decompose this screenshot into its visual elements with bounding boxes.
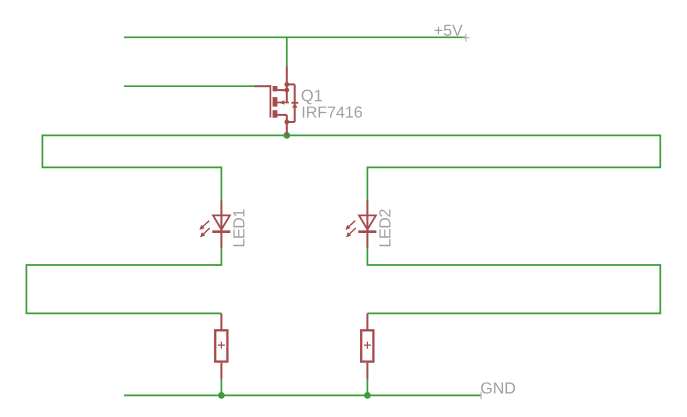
wire gate row	[124, 85, 255, 87]
wire GND row	[124, 394, 481, 396]
C1 plus sign	[218, 342, 225, 349]
label LED2	[379, 209, 390, 246]
wire C1 to GND	[220, 379, 222, 395]
C2 bottom pin	[366, 363, 368, 380]
C1 body box	[215, 330, 227, 361]
body diode cathode bar	[291, 102, 298, 104]
C1 bottom pin	[220, 363, 222, 380]
drain bar connector	[277, 89, 286, 91]
LED1 cathode bar	[212, 230, 230, 233]
channel bar body	[273, 97, 278, 107]
LED LED1	[199, 201, 230, 249]
pin junction dot lower	[284, 88, 289, 93]
LED2 emission arrow 1	[349, 221, 355, 227]
pin junction dot upper	[284, 82, 289, 87]
wire right branch to LED2	[367, 135, 660, 201]
wire C2 to GND	[366, 379, 368, 395]
LED1 anode/cathode line	[220, 201, 222, 249]
LED LED2	[345, 201, 376, 249]
wire LED2 lower loop	[367, 248, 660, 313]
junction C1 GND	[218, 392, 225, 399]
wire LED1 lower loop	[26, 248, 221, 313]
junction C2 GND	[364, 392, 371, 399]
gate pin stub	[255, 85, 270, 87]
C1 top pin	[220, 313, 222, 329]
wire left branch to LED1	[42, 135, 221, 201]
LED2 triangle	[359, 215, 376, 229]
capacitor C2	[361, 313, 373, 379]
label Q1	[302, 90, 322, 105]
source bar connector	[277, 114, 286, 116]
transistor Q1	[255, 66, 299, 124]
body diode branch elbow	[287, 121, 295, 123]
capacitor C1	[215, 313, 227, 379]
channel bar source	[273, 110, 278, 118]
body diode triangle	[292, 104, 298, 108]
body diode branch vertical	[294, 84, 296, 122]
LED1 emission arrow 1	[203, 221, 209, 227]
gate bar	[269, 85, 271, 118]
net end cross +5V	[462, 34, 470, 42]
C2 body box	[361, 330, 373, 361]
LED1 emission arrow 2	[204, 228, 210, 234]
junction Q1 drain	[283, 132, 290, 139]
Q1 drain pin bottom	[286, 115, 288, 135]
C2 top pin	[366, 313, 368, 329]
body diode branch top	[287, 83, 295, 85]
C2 plus sign	[364, 342, 371, 349]
pin junction dot bottom	[284, 120, 289, 125]
LED2 cathode bar	[358, 230, 376, 233]
LED2 anode/cathode line	[366, 201, 368, 249]
value label IRF7416	[303, 106, 362, 117]
wire +5V top horizontal	[124, 36, 465, 38]
net label +5V	[435, 25, 463, 36]
LED2 emission arrow 2	[350, 228, 356, 234]
label LED1	[233, 209, 244, 246]
net end cross GND	[480, 392, 482, 399]
channel bar drain	[273, 86, 278, 91]
body arrow	[279, 100, 284, 105]
net label GND	[481, 382, 515, 393]
source pin vertical	[286, 66, 288, 102]
body connector	[277, 102, 289, 104]
wire drain net row	[42, 134, 660, 136]
LED1 triangle	[213, 215, 230, 229]
wire +5V drop to Q1	[286, 37, 288, 66]
